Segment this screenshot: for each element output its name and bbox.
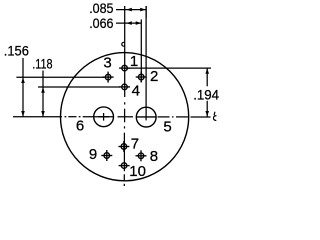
svg-text:3: 3 — [103, 54, 111, 71]
svg-text:.194: .194 — [193, 86, 219, 102]
svg-text:6: 6 — [76, 117, 84, 134]
svg-text:.085: .085 — [89, 0, 113, 16]
pin 10 — [119, 163, 130, 169]
svg-text:.066: .066 — [89, 15, 113, 31]
svg-text:1: 1 — [130, 53, 138, 70]
dimension .085 — [116, 6, 146, 18]
dimension .156 — [16, 58, 104, 117]
svg-text:5: 5 — [163, 118, 171, 135]
connector body circle — [61, 53, 189, 181]
pin 9 — [101, 150, 112, 161]
vertical centerline — [123, 6, 125, 186]
pin 6 (large) — [94, 107, 114, 127]
pin 3 — [103, 72, 114, 83]
svg-text:.118: .118 — [32, 55, 52, 71]
svg-text:4: 4 — [132, 83, 140, 100]
pin 7 — [118, 141, 129, 152]
svg-text:7: 7 — [131, 136, 139, 153]
svg-text:2: 2 — [150, 68, 158, 85]
pin 1 — [119, 65, 130, 71]
pin 2 — [136, 72, 147, 83]
centerline symbol (top) — [122, 42, 125, 46]
horizontal centerline — [13, 116, 211, 118]
svg-text:10: 10 — [129, 163, 146, 180]
svg-text:8: 8 — [150, 148, 158, 165]
svg-text:.156: .156 — [4, 43, 29, 59]
dimension .118 — [38, 71, 120, 117]
pin 5 (large) — [136, 6, 156, 127]
centerline symbol (right) — [213, 112, 216, 121]
svg-text:9: 9 — [89, 146, 97, 163]
dimension .066 — [116, 19, 141, 82]
pin 4 — [119, 84, 130, 90]
pin 8 — [136, 150, 147, 161]
dimension .194 — [125, 68, 211, 117]
